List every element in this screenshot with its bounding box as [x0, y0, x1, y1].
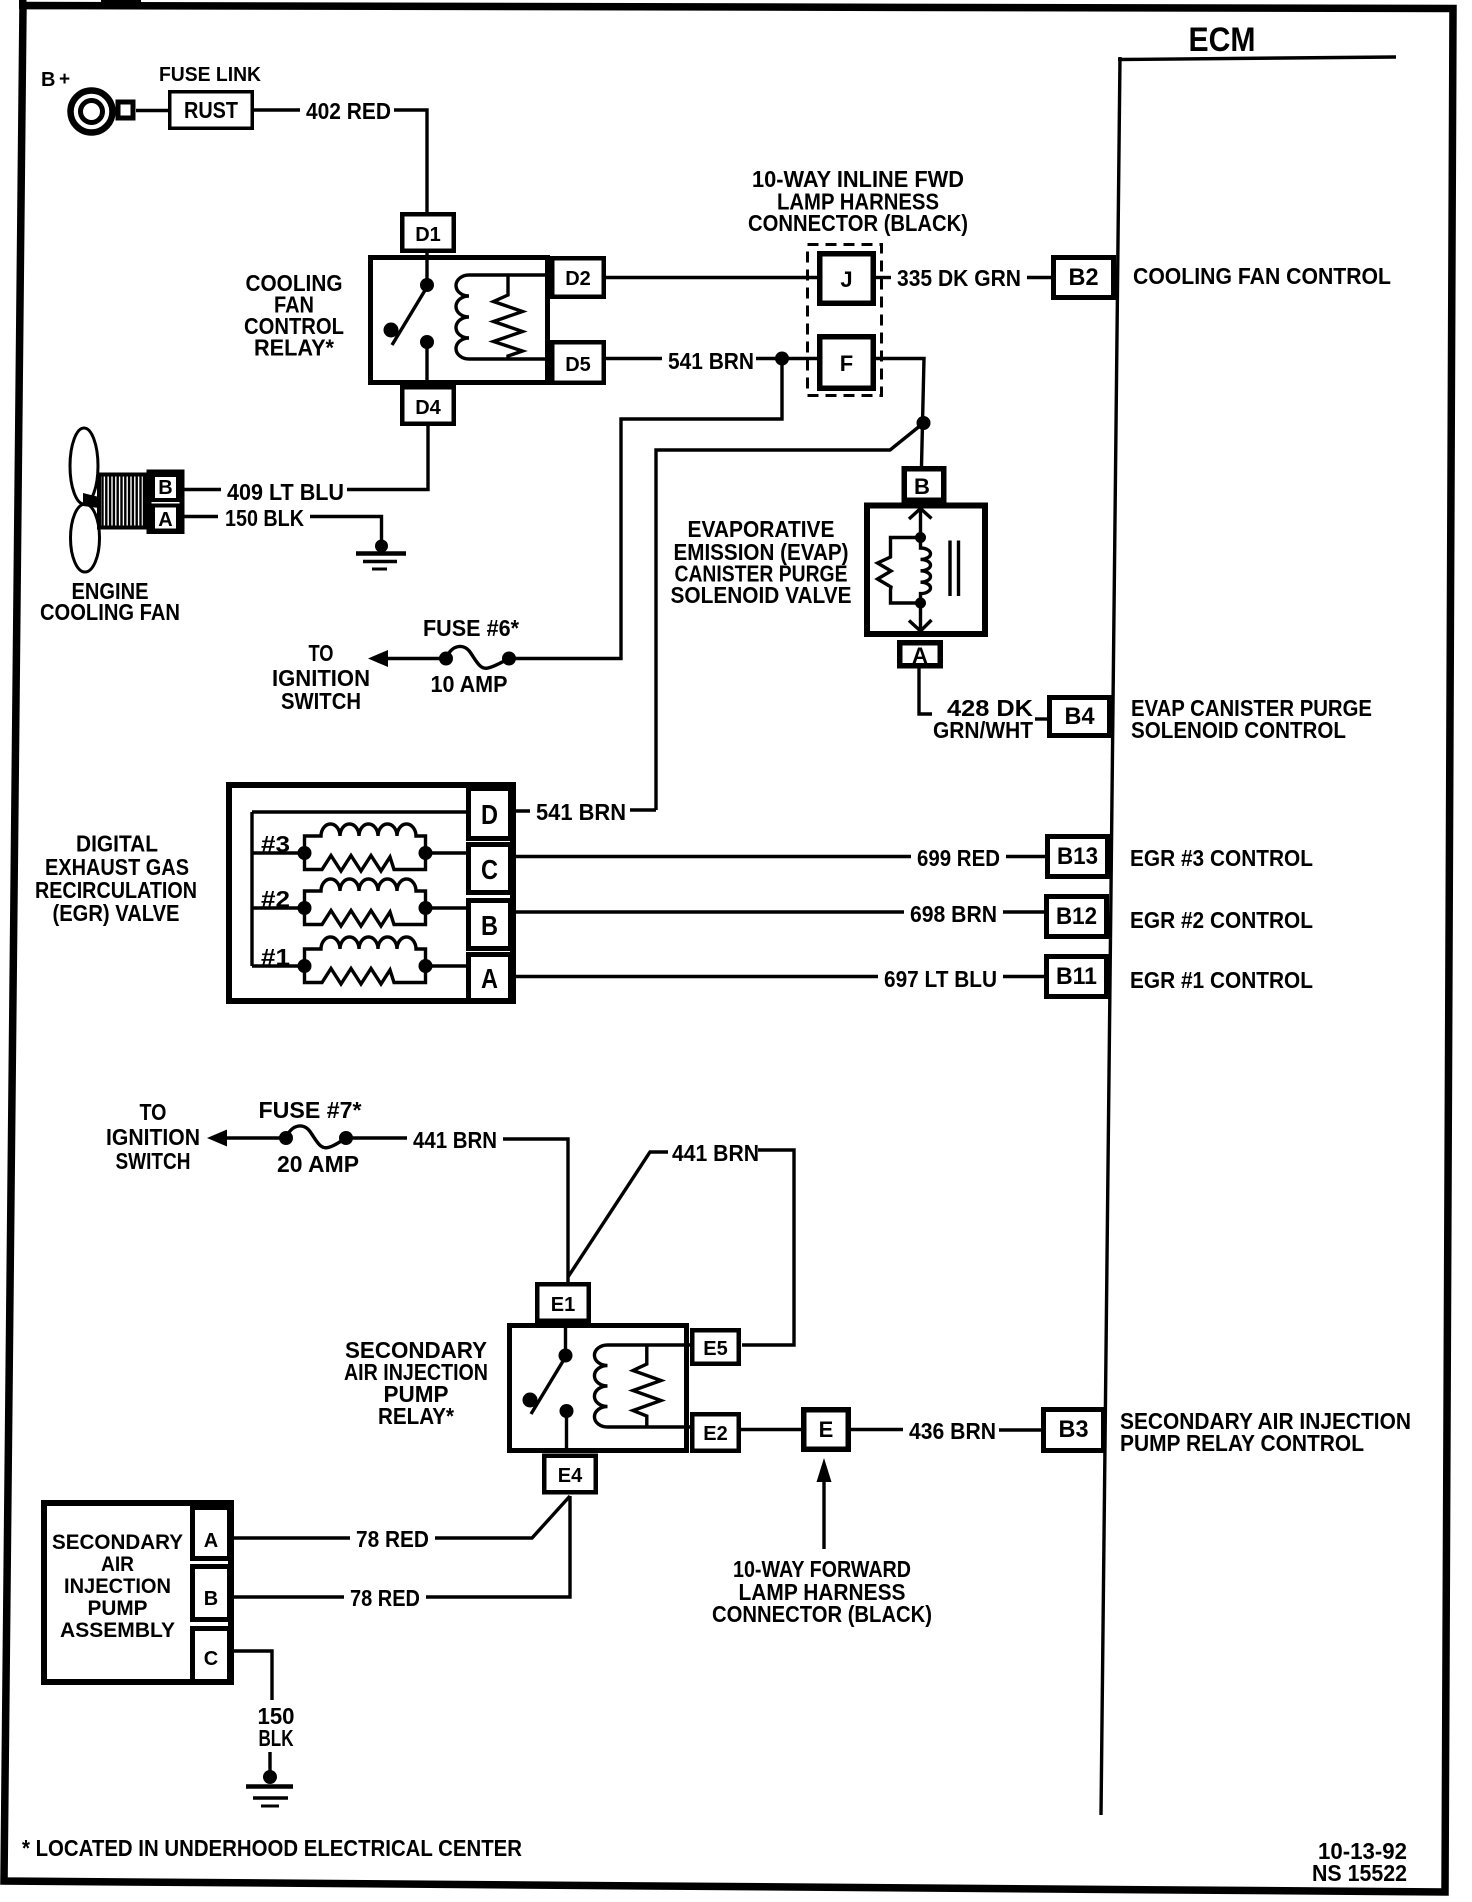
svg-text:J: J [840, 267, 852, 292]
svg-text:FUSE #7*: FUSE #7* [259, 1097, 363, 1123]
svg-text:TO: TO [140, 1099, 167, 1125]
svg-text:PUMP RELAY CONTROL: PUMP RELAY CONTROL [1120, 1430, 1364, 1456]
wire fan pin A to 150 BLK [183, 515, 218, 518]
EGR row 2 node left [298, 901, 312, 915]
EVAP vent double bars [948, 541, 951, 597]
EGR row 1 node right [419, 959, 433, 973]
connector pin F [820, 337, 874, 389]
pump pin C [193, 1629, 230, 1682]
wire A to 428 DK GRN/WHT [919, 668, 932, 714]
fan pin A [153, 506, 178, 531]
svg-text:SOLENOID CONTROL: SOLENOID CONTROL [1131, 717, 1346, 743]
EGR internal row 2 stub [252, 906, 305, 909]
pin D5 [552, 342, 604, 383]
svg-text:698 BRN: 698 BRN [910, 901, 997, 927]
wire terminal to fuse link [136, 109, 168, 112]
relay U2 coil winding [594, 1345, 607, 1427]
arrow to ignition switch [368, 650, 388, 667]
svg-text:#1: #1 [261, 944, 290, 970]
EGR row 3 node left [298, 846, 312, 860]
svg-text:EGR #3 CONTROL: EGR #3 CONTROL [1130, 845, 1313, 871]
EGR row 1 wire to A [426, 964, 467, 967]
relay U1 wire lower contact to D4 [425, 342, 428, 385]
relay U2 coil top rail to E5 [608, 1343, 692, 1346]
wire E2 to E [741, 1428, 801, 1431]
svg-text:436 BRN: 436 BRN [909, 1418, 996, 1444]
svg-text:E4: E4 [558, 1465, 583, 1487]
svg-text:B2: B2 [1069, 264, 1099, 291]
engine cooling fan hub wedge [83, 493, 99, 508]
wire A to 697 LT BLU [513, 975, 878, 978]
wire B to 698 BRN [513, 910, 904, 913]
EGR internal row 1 stub [252, 964, 305, 967]
wire pump B to 78 RED [232, 1595, 344, 1598]
EVAP internal wire from B with arrowhead [919, 503, 922, 538]
wire 699 RED to B13 [1006, 855, 1045, 858]
EVAP solenoid valve box [867, 506, 985, 635]
ECM pin B12 [1047, 897, 1107, 937]
wire 78 RED to E4 diagonal [435, 1496, 570, 1538]
wire fuse 6 left [383, 657, 443, 660]
EGR internal top wire to D [252, 810, 466, 813]
wire fuse 7 left [222, 1136, 283, 1139]
EGR row 2 node right [419, 901, 433, 915]
pin E4 [544, 1456, 596, 1493]
svg-text:78 RED: 78 RED [356, 1526, 429, 1552]
svg-text:C: C [481, 854, 498, 885]
relay U2 wire lower contact to E4 [565, 1411, 568, 1453]
pin E5 [692, 1330, 739, 1364]
pin D2 [552, 258, 604, 297]
relay U2 resistor zigzag [633, 1346, 661, 1427]
wire D5 to 541 BRN [606, 357, 662, 360]
arrow to ignition switch lower [207, 1130, 227, 1147]
EGR pin B [469, 901, 511, 949]
relay U1 switch blade [392, 287, 427, 345]
svg-text:#2: #2 [261, 886, 290, 912]
svg-text:B: B [158, 477, 172, 499]
EVAP internal wire to A with arrowhead [919, 603, 922, 633]
EGR valve box [229, 785, 513, 1001]
wire 78 RED to E4 vertical [426, 1496, 570, 1597]
relay U2 switch contact dot left [523, 1393, 538, 1408]
EGR solenoid 1 resistor [305, 966, 426, 984]
EVAP resistor branch [878, 538, 921, 604]
svg-text:B11: B11 [1056, 963, 1097, 990]
svg-text:20 AMP: 20 AMP [277, 1151, 359, 1177]
EGR internal left bus [250, 812, 253, 966]
EGR solenoid 1 coil [305, 937, 426, 966]
EGR row 1 node left [298, 959, 312, 973]
wire to B4 [1035, 717, 1047, 720]
EGR solenoid 2 coil [305, 879, 426, 908]
svg-text:B: B [481, 910, 498, 941]
EVAP solenoid pin B [904, 469, 944, 501]
svg-text:541 BRN: 541 BRN [668, 348, 754, 374]
svg-text:A: A [204, 1530, 218, 1552]
svg-text:BLK: BLK [259, 1725, 294, 1751]
svg-text:E5: E5 [703, 1338, 727, 1360]
fan pin B [153, 475, 178, 500]
relay U1 cooling fan control relay box [371, 258, 548, 383]
svg-text:RELAY*: RELAY* [378, 1403, 455, 1429]
ground G2 [263, 1770, 277, 1784]
svg-text:A: A [158, 509, 172, 531]
relay U2 switch blade [531, 1357, 566, 1414]
pump pin A [193, 1508, 230, 1559]
svg-text:SWITCH: SWITCH [281, 688, 361, 714]
wire fuse 6 to 541 BRN junction [509, 359, 782, 659]
svg-text:#3: #3 [261, 831, 290, 857]
ECM pin B3 [1044, 1410, 1104, 1451]
svg-text:409 LT BLU: 409 LT BLU [227, 479, 344, 505]
svg-text:541 BRN: 541 BRN [536, 799, 626, 825]
svg-text:B4: B4 [1065, 703, 1096, 730]
pin E2 [692, 1414, 739, 1451]
battery ring terminal [71, 91, 113, 133]
ECM box top line [1118, 57, 1396, 60]
wire D to 541 BRN [513, 809, 530, 812]
svg-text:RELAY*: RELAY* [254, 335, 335, 361]
svg-text:CONNECTOR (BLACK): CONNECTOR (BLACK) [712, 1601, 932, 1627]
wire pump A to 78 RED [232, 1536, 350, 1539]
svg-text:B: B [204, 1588, 218, 1610]
svg-text:A: A [481, 963, 498, 994]
fan connector outline [149, 472, 182, 532]
EGR row 2 wire to B [426, 906, 467, 909]
relay U1 coil top rail to D2 [469, 273, 552, 276]
relay U2 switch contact dot upper [559, 1349, 573, 1363]
wire pump C to 150 BLK [234, 1651, 272, 1700]
svg-text:402 RED: 402 RED [306, 98, 391, 124]
svg-text:A: A [912, 643, 928, 668]
svg-text:150 BLK: 150 BLK [225, 505, 304, 531]
svg-text:FUSE LINK: FUSE LINK [159, 64, 262, 86]
ground G1 [375, 540, 388, 553]
secondary air injection pump assembly box [44, 1503, 231, 1682]
pin D1 [402, 214, 454, 251]
connector pin E [804, 1410, 849, 1450]
EVAP internal bottom node [915, 598, 926, 609]
svg-text:699 RED: 699 RED [917, 845, 1000, 871]
fuse F6 symbol [439, 652, 453, 666]
arrow up to connector E [822, 1468, 825, 1549]
svg-text:335 DK GRN: 335 DK GRN [897, 265, 1021, 291]
fuse F7 symbol [279, 1131, 293, 1145]
wire 541 BRN corner up [630, 808, 656, 811]
svg-text:D5: D5 [565, 354, 591, 376]
svg-text:SWITCH: SWITCH [116, 1148, 191, 1174]
relay U2 coil bottom rail to E2 [608, 1425, 692, 1428]
svg-text:441 BRN: 441 BRN [672, 1140, 759, 1166]
wire 150 BLK to ground [268, 1752, 271, 1771]
svg-text:EGR #1 CONTROL: EGR #1 CONTROL [1130, 967, 1313, 993]
fuse link RUST box [170, 92, 253, 129]
svg-text:DIGITAL: DIGITAL [76, 831, 158, 857]
svg-text:COOLING FAN: COOLING FAN [40, 599, 180, 625]
ECM box left vertical line [1101, 57, 1120, 1815]
svg-text:E: E [819, 1417, 834, 1442]
svg-text:B: B [914, 474, 930, 499]
relay U2 switch contact dot lower [560, 1404, 574, 1418]
svg-text:D2: D2 [565, 268, 591, 290]
svg-text:IGNITION: IGNITION [106, 1124, 200, 1150]
border top-left corner extension [19, 0, 27, 9]
svg-text:CONNECTOR (BLACK): CONNECTOR (BLACK) [748, 210, 968, 236]
svg-text:ECM: ECM [1189, 21, 1256, 59]
EGR pin C [469, 845, 511, 893]
wire D4 to 409 LT BLU [347, 426, 428, 490]
pin E1 [537, 1284, 589, 1321]
svg-text:AIR: AIR [101, 1553, 134, 1576]
connector pin J [820, 254, 874, 304]
svg-text:GRN/WHT: GRN/WHT [933, 717, 1034, 743]
wire 441 BRN diagonal from E1 [568, 1152, 668, 1277]
wire 441 BRN to E5 [742, 1150, 794, 1345]
relay U2 secondary air injection pump relay box [510, 1326, 687, 1451]
EVAP solenoid pin A [900, 643, 941, 666]
svg-text:B12: B12 [1056, 903, 1097, 930]
wire 697 LT BLU to B11 [1003, 975, 1044, 978]
svg-text:B: B [41, 69, 55, 91]
svg-text:F: F [840, 351, 853, 376]
relay U1 switch contact dot left [384, 323, 399, 338]
relay U1 switch common wire from D1 [425, 253, 428, 285]
wire junction diagonal to 541 BRN branch [656, 423, 924, 810]
junction node above EVAP [917, 416, 931, 430]
EGR row 3 node right [419, 846, 433, 860]
svg-text:441 BRN: 441 BRN [413, 1127, 497, 1153]
wire 150 BLK to ground [310, 517, 382, 547]
svg-text:* LOCATED IN UNDERHOOD ELECTRI: * LOCATED IN UNDERHOOD ELECTRICAL CENTER [22, 1835, 522, 1861]
svg-text:+: + [59, 69, 70, 90]
svg-text:INJECTION: INJECTION [64, 1575, 171, 1598]
svg-text:ASSEMBLY: ASSEMBLY [60, 1619, 175, 1642]
engine cooling fan blade upper [70, 428, 98, 504]
wire J to 335 DK GRN [876, 276, 891, 279]
relay U1 coil bottom rail to D5 [469, 357, 552, 360]
svg-text:78 RED: 78 RED [350, 1585, 420, 1611]
svg-text:FUSE #6*: FUSE #6* [423, 615, 520, 641]
svg-text:(EGR) VALVE: (EGR) VALVE [53, 900, 180, 926]
svg-text:D4: D4 [415, 397, 441, 419]
wire D2 to connector J [606, 276, 817, 279]
engine cooling fan blade lower [71, 504, 100, 572]
10-way inline connector dashed box [808, 245, 882, 396]
wire 698 BRN to B12 [1003, 910, 1044, 913]
EVAP coil winding [921, 538, 931, 604]
wire 335 DK GRN to B2 [1027, 276, 1051, 279]
wire RUST to 402 RED [254, 108, 300, 111]
svg-text:COOLING FAN CONTROL: COOLING FAN CONTROL [1133, 263, 1391, 289]
relay U2 switch common wire from E1 [564, 1323, 567, 1355]
svg-text:D: D [481, 799, 498, 830]
relay U1 switch contact dot upper [420, 278, 434, 292]
engine cooling fan motor body [99, 475, 145, 528]
pin D4 [402, 387, 454, 424]
relay U1 coil winding [456, 275, 469, 359]
junction node 541 BRN [775, 352, 789, 366]
EGR solenoid 2 resistor [305, 908, 426, 926]
svg-text:EGR #2 CONTROL: EGR #2 CONTROL [1130, 907, 1313, 933]
wire F to junction [876, 359, 924, 467]
EVAP internal top node [915, 532, 926, 543]
svg-text:SECONDARY: SECONDARY [52, 1531, 183, 1554]
EGR pin D [469, 789, 511, 839]
relay U1 resistor zigzag [494, 276, 523, 358]
EGR solenoid 3 coil [305, 824, 426, 853]
wire 402 RED to D1 [394, 110, 427, 214]
wire 441 BRN to E1 [503, 1139, 568, 1282]
svg-text:10 AMP: 10 AMP [431, 671, 508, 697]
svg-text:SOLENOID VALVE: SOLENOID VALVE [671, 582, 852, 608]
EGR pin A [469, 955, 511, 1001]
svg-text:PUMP: PUMP [88, 1597, 148, 1620]
svg-text:TO: TO [309, 640, 334, 666]
wire E to 436 BRN [851, 1428, 903, 1431]
EGR solenoid 3 resistor [305, 853, 426, 871]
svg-text:B13: B13 [1057, 843, 1098, 870]
svg-text:E1: E1 [551, 1294, 575, 1316]
svg-text:C: C [204, 1648, 218, 1670]
svg-text:RUST: RUST [184, 97, 238, 123]
svg-text:E2: E2 [703, 1423, 727, 1445]
wire C to 699 RED [513, 855, 911, 858]
wire 436 BRN to B3 [999, 1428, 1041, 1431]
EGR row 3 wire to C [426, 851, 467, 854]
svg-text:NS 15522: NS 15522 [1312, 1860, 1407, 1886]
wire 541 BRN to connector F [756, 357, 817, 360]
ECM pin B13 [1048, 837, 1108, 877]
border notch artifact [101, 0, 141, 4]
EGR internal row 3 stub [252, 851, 305, 854]
svg-text:B3: B3 [1059, 1416, 1089, 1443]
ECM pin B4 [1050, 698, 1110, 736]
ECM pin B2 [1054, 258, 1114, 298]
relay U1 switch contact dot lower [420, 335, 434, 349]
pump pin B [193, 1567, 230, 1620]
svg-text:697 LT BLU: 697 LT BLU [884, 966, 997, 992]
wire 409 LT BLU to fan pin B [183, 488, 221, 491]
svg-text:D1: D1 [415, 224, 441, 246]
wire fuse 7 to 441 BRN [346, 1136, 407, 1139]
ECM pin B11 [1047, 957, 1107, 997]
